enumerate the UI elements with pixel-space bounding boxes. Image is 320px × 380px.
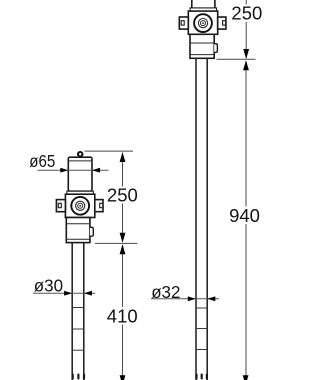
label ø32 xyxy=(151,282,180,302)
dimension line 250 left xyxy=(120,152,126,243)
ø30 arrow right xyxy=(84,291,92,296)
ø65 arrow left xyxy=(60,168,68,173)
right pump flange band xyxy=(190,8,216,11)
right pump right tab xyxy=(218,17,226,29)
dimension line 410 xyxy=(120,244,126,380)
right pump outlet bump xyxy=(214,44,217,53)
right pump mid block xyxy=(188,11,217,34)
ø65 arrow right xyxy=(92,168,100,173)
label 410 xyxy=(107,306,138,327)
ø32 arrow left xyxy=(188,296,196,301)
dimension line 250 right xyxy=(243,0,249,59)
svg-text:940: 940 xyxy=(229,205,260,226)
label 940 xyxy=(229,205,260,226)
left pump outlet bump xyxy=(90,227,93,236)
left pump suction tube xyxy=(72,243,84,380)
ø30 leader line xyxy=(33,292,95,294)
right pump rotor circle xyxy=(194,14,212,32)
svg-text:410: 410 xyxy=(107,306,138,327)
ø65 leader line xyxy=(38,169,109,171)
left pump flange band xyxy=(67,191,93,194)
ø30 arrow left xyxy=(64,291,72,296)
right pump suction tube xyxy=(196,58,207,380)
dimension line 940 xyxy=(243,60,249,380)
left pump upper body xyxy=(68,157,92,191)
right pump lower section xyxy=(190,34,214,58)
label ø65 xyxy=(29,152,55,171)
label ø30 xyxy=(34,275,63,295)
extension line top left xyxy=(85,150,134,152)
svg-text:ø30: ø30 xyxy=(34,275,63,295)
label 250 right xyxy=(231,2,262,23)
left tube foot perforations xyxy=(72,374,86,380)
right pump left tab xyxy=(179,17,188,29)
left pump rotor circle xyxy=(71,197,89,215)
left tube joint lines xyxy=(72,308,84,351)
extension line bottom left xyxy=(95,242,137,244)
left pump left tab xyxy=(56,200,65,212)
right tube joint lines xyxy=(196,308,207,350)
left pump eyelet xyxy=(78,152,82,158)
svg-text:250: 250 xyxy=(107,185,138,206)
left pump right tab xyxy=(95,200,103,212)
ø32 arrow right xyxy=(207,296,215,301)
left pump mid block xyxy=(65,194,94,217)
extension line right xyxy=(217,58,256,60)
right tube foot perforations xyxy=(195,374,208,380)
svg-text:250: 250 xyxy=(231,2,262,23)
left pump cap line xyxy=(68,160,92,162)
label 250 left xyxy=(107,185,138,206)
svg-text:ø65: ø65 xyxy=(29,152,55,171)
right pump upper body xyxy=(192,0,215,8)
left pump lower section xyxy=(66,218,90,243)
ø32 leader line xyxy=(151,298,219,300)
